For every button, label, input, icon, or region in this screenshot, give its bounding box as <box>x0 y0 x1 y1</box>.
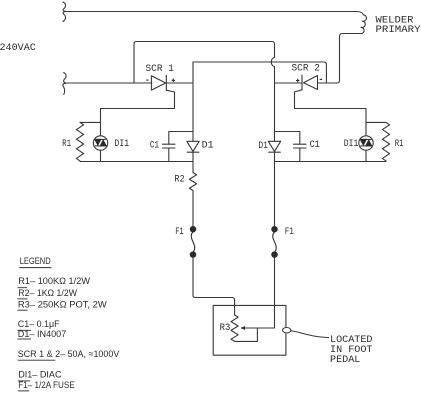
wire SCR2 gate <box>295 90 367 109</box>
wire SCR1 cathode to node A <box>166 82 193 84</box>
wire rail2 to crossbar riser <box>134 42 275 84</box>
svg-text:D1: D1 <box>202 141 214 152</box>
diode D1 left <box>187 141 199 151</box>
legend R3 row <box>17 298 27 300</box>
svg-text:SCR 2: SCR 2 <box>292 64 320 75</box>
wire crossover node A to SCR2 anode <box>193 62 326 83</box>
wire F1 left to R3 top <box>193 257 235 315</box>
wire rail1 break squiggle <box>63 2 66 22</box>
fuse F1 right <box>272 227 277 258</box>
svg-text:R2: R2 <box>174 175 184 186</box>
wire R1 left top connect <box>80 121 101 123</box>
svg-text:R3– 250KΩ POT, 2W: R3– 250KΩ POT, 2W <box>18 300 107 311</box>
wire rail1 (240VAC line 1) <box>66 12 363 15</box>
fuse F1 left <box>190 227 195 258</box>
svg-text:DI1: DI1 <box>114 139 129 150</box>
wire from coil to SCR2 anode <box>318 34 360 84</box>
wire line2-node vertical with hop over crossover <box>271 44 274 141</box>
svg-text:PEDAL: PEDAL <box>330 355 360 366</box>
label SCR1 minus <box>146 79 148 81</box>
wire node A vertical <box>192 62 194 141</box>
SCR U2 (SCR 2) <box>304 76 318 90</box>
diac DI1 right symbol <box>360 139 371 146</box>
inductor welder primary coil <box>360 15 367 34</box>
wire bottom right <box>275 161 387 163</box>
legend D1 row <box>17 329 31 331</box>
svg-text:240VAC: 240VAC <box>0 43 36 54</box>
SCR U1 (SCR 1) <box>151 76 165 90</box>
foot pedal box <box>213 305 286 355</box>
svg-text:C1: C1 <box>310 140 320 151</box>
svg-text:D1: D1 <box>258 141 268 152</box>
svg-text:LEGEND: LEGEND <box>20 256 51 267</box>
diac DI1 right <box>359 136 373 150</box>
diac DI1 left symbol <box>95 139 106 146</box>
svg-text:D1– IN4007: D1– IN4007 <box>18 329 67 340</box>
wire rail2 (240VAC line 2) <box>66 82 151 84</box>
svg-text:R2– 1KΩ 1/2W: R2– 1KΩ 1/2W <box>18 288 77 299</box>
callout leader line <box>291 331 329 338</box>
svg-text:DI1: DI1 <box>344 139 359 150</box>
diode D1 right <box>268 141 280 151</box>
legend R2 row <box>18 287 28 289</box>
svg-text:C1: C1 <box>150 141 159 152</box>
potentiometer R3 <box>231 315 238 341</box>
wire R3 wiper <box>244 327 274 329</box>
diac DI1 left <box>93 136 107 150</box>
label SCR2 plus <box>296 79 299 82</box>
svg-text:F1: F1 <box>175 227 183 238</box>
resistor R1 right <box>382 122 389 161</box>
resistor R2 <box>189 162 196 227</box>
resistor R1 left <box>76 122 83 161</box>
capacitor C1 left <box>169 132 193 145</box>
svg-text:SCR 1 & 2– 50A, ≈1000V: SCR 1 & 2– 50A, ≈1000V <box>18 349 120 360</box>
svg-text:R1: R1 <box>62 139 71 150</box>
wire F1 right to R3 wiper <box>274 257 276 328</box>
capacitor C1 right <box>275 132 300 145</box>
svg-text:F1– 1/2A FUSE: F1– 1/2A FUSE <box>18 380 75 391</box>
legend F1 row <box>18 380 30 382</box>
svg-text:R1: R1 <box>395 139 404 150</box>
R3 wiper arrowhead <box>240 326 245 330</box>
wire R3 wiper to bottom terminal <box>235 328 258 341</box>
svg-text:PRIMARY: PRIMARY <box>376 25 421 36</box>
label SCR1 plus <box>172 79 175 82</box>
label SCR2 minus <box>320 78 322 80</box>
callout balloon <box>283 328 291 333</box>
svg-text:R1– 100KΩ 1/2W: R1– 100KΩ 1/2W <box>18 276 90 287</box>
svg-text:F1: F1 <box>285 227 294 238</box>
svg-text:SCR 1: SCR 1 <box>146 64 174 75</box>
wire SCR2 cathode to line2 node <box>275 82 303 84</box>
wire bottom left <box>80 161 193 163</box>
wire R1 right top connect <box>366 121 386 123</box>
svg-text:R3: R3 <box>220 323 231 334</box>
wire rail2 break squiggle <box>63 73 66 95</box>
wire SCR1 gate <box>101 90 175 108</box>
